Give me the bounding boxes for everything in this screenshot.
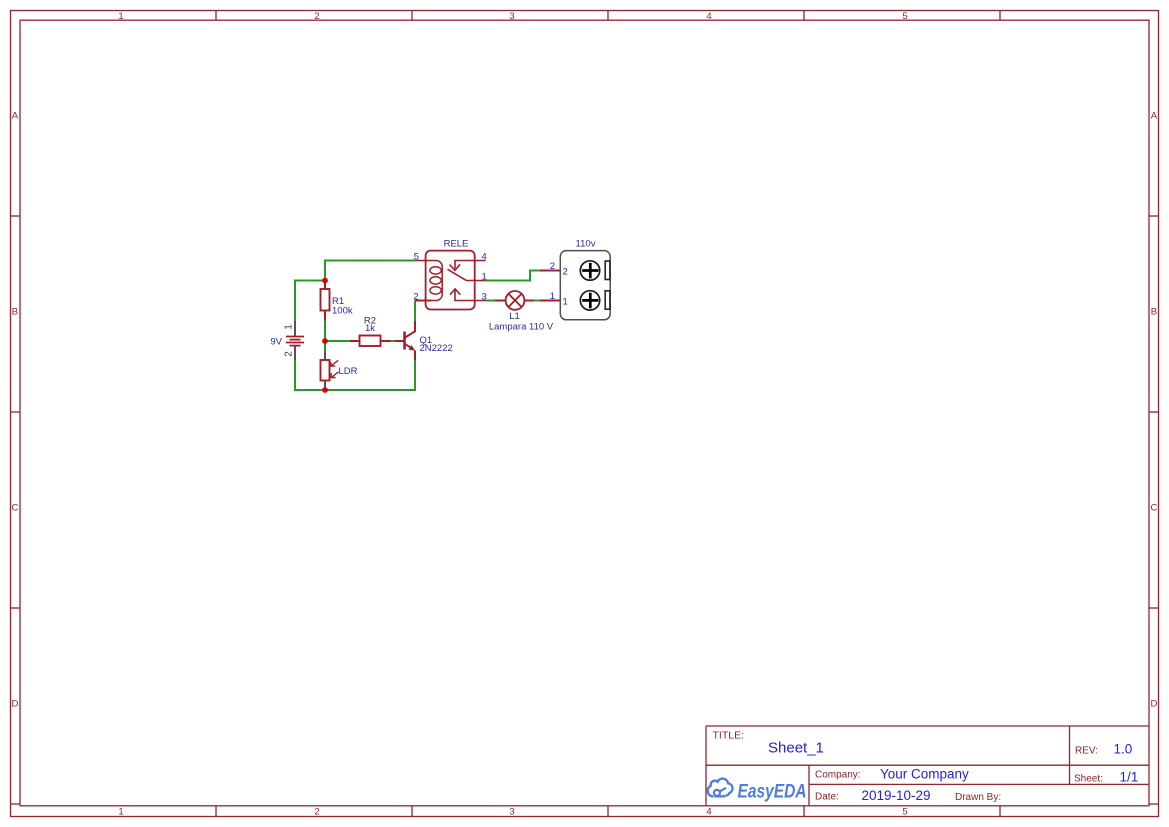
wire node A to battery positive branch [295, 281, 325, 322]
relay switch blade to pin 1 [448, 269, 486, 280]
svg-text:Drawn By:: Drawn By: [955, 792, 1001, 803]
svg-text:Company:: Company: [815, 770, 861, 781]
transistor Q1 [395, 321, 415, 360]
connector 110v body [560, 251, 610, 320]
svg-text:5: 5 [414, 252, 419, 263]
svg-text:3: 3 [509, 11, 514, 22]
title block field names [713, 730, 1103, 804]
svg-text:5: 5 [902, 807, 907, 818]
svg-text:4: 4 [482, 252, 487, 263]
svg-text:1.0: 1.0 [1114, 742, 1133, 757]
connector 110v pin 1 stub [540, 300, 560, 302]
svg-text:Date:: Date: [815, 792, 839, 803]
svg-text:1: 1 [284, 324, 295, 330]
resistor R1 [321, 281, 330, 321]
svg-text:1: 1 [550, 291, 555, 302]
svg-text:Sheet_1: Sheet_1 [768, 740, 824, 757]
svg-text:2: 2 [314, 11, 319, 22]
relay NO contact arrow (pin 3) [450, 289, 486, 301]
connector 110v screw terminals [580, 261, 599, 310]
svg-text:2019-10-29: 2019-10-29 [862, 788, 931, 803]
svg-text:4: 4 [706, 11, 711, 22]
wire node B to R2 left [325, 340, 350, 342]
svg-text:A: A [1151, 111, 1158, 122]
svg-text:D: D [11, 699, 18, 710]
junction node C [322, 387, 328, 393]
wire battery negative to bottom rail to Q1 emitter [295, 360, 415, 390]
svg-text:1: 1 [118, 11, 123, 22]
junction node A [322, 278, 328, 284]
wire lamp L1 to connector pin 1 [534, 300, 541, 302]
svg-text:1: 1 [563, 297, 568, 308]
photoresistor LDR [321, 351, 339, 390]
svg-text:LDR: LDR [339, 366, 358, 377]
battery BT1 9V [294, 321, 296, 360]
svg-text:4: 4 [706, 807, 711, 818]
svg-text:2: 2 [413, 292, 418, 303]
svg-text:3: 3 [482, 292, 487, 303]
svg-text:D: D [1150, 699, 1157, 710]
connector 110v pin 2 stub [540, 270, 560, 272]
svg-text:TITLE:: TITLE: [713, 730, 745, 742]
title block [706, 726, 1149, 806]
wire R2 right to Q1 base [391, 340, 396, 342]
relay pin 2 stub [415, 300, 432, 302]
svg-text:Lampara 110 V: Lampara 110 V [489, 321, 554, 332]
svg-text:C: C [1150, 503, 1157, 514]
wire relay pin 1 to connector pin 2 [486, 271, 541, 281]
svg-text:EasyEDA: EasyEDA [738, 781, 807, 802]
svg-text:2: 2 [314, 807, 319, 818]
svg-text:B: B [1151, 307, 1157, 318]
wire R1 bottom through node B to LDR top [324, 321, 326, 352]
svg-text:5: 5 [902, 11, 907, 22]
wire relay pin 2 to Q1 collector [414, 301, 416, 322]
relay RELE coil (pins 5-2) [415, 261, 442, 301]
title block field values [768, 740, 1138, 804]
svg-text:3: 3 [509, 807, 514, 818]
junction node B [322, 338, 328, 344]
lamp L1 [495, 291, 534, 310]
EasyEDA logo [708, 779, 733, 797]
svg-text:Sheet:: Sheet: [1074, 774, 1103, 785]
svg-text:2: 2 [550, 261, 555, 272]
resistor R2 [350, 336, 391, 347]
svg-text:REV:: REV: [1075, 746, 1098, 757]
svg-text:2: 2 [284, 351, 295, 357]
svg-text:1k: 1k [365, 323, 375, 334]
wire top rail node A to relay pin 5 [325, 261, 415, 281]
svg-text:110v: 110v [576, 239, 596, 250]
svg-text:9V: 9V [270, 337, 282, 348]
svg-text:2N2222: 2N2222 [420, 343, 453, 354]
relay common contact arrow (pin 4) [450, 261, 486, 271]
svg-text:2: 2 [563, 267, 568, 278]
svg-text:A: A [12, 111, 19, 122]
svg-text:C: C [11, 503, 18, 514]
svg-text:Your Company: Your Company [880, 767, 969, 782]
svg-text:100k: 100k [332, 306, 353, 317]
svg-text:B: B [12, 307, 18, 318]
svg-text:1: 1 [118, 807, 123, 818]
relay RELE body [426, 251, 475, 310]
svg-text:1/1: 1/1 [1120, 770, 1139, 785]
svg-text:RELE: RELE [444, 238, 469, 249]
wire relay pin 3 to lamp L1 [486, 300, 496, 302]
svg-text:1: 1 [482, 272, 487, 283]
